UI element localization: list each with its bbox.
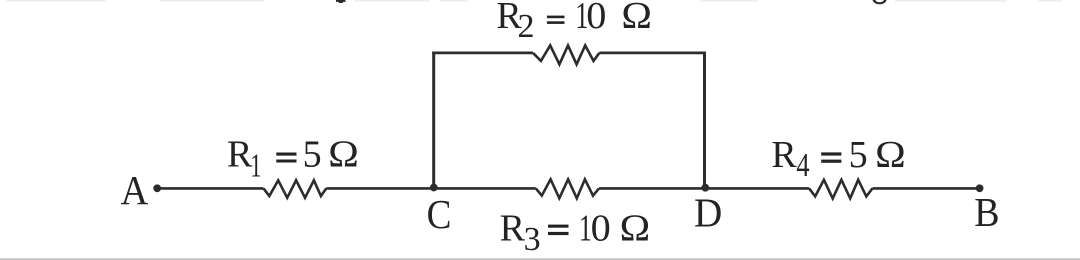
label R1 value [227,133,359,185]
svg-text:5: 5 [849,134,868,176]
resistor R3 [536,179,599,198]
wire: left vertical from C up [432,52,435,189]
wire R1 to node C [326,187,434,190]
svg-text:5: 5 [303,134,322,176]
svg-text:1: 1 [250,148,261,185]
wire R3 to node D [599,187,705,190]
cut-off text remnant: faint glyph bottoms [6,0,1062,2]
terminal dot A [153,184,161,192]
label R2 value [496,0,652,45]
svg-text:Ω: Ω [621,0,652,37]
cut-off text remnant: descender stem [336,0,346,3]
svg-text:0: 0 [591,208,611,250]
svg-text:R: R [771,134,797,176]
node C [430,184,438,192]
svg-text:4: 4 [796,147,809,184]
svg-text:R: R [500,208,526,250]
wire: top right horizontal [599,52,706,55]
svg-text:B: B [974,189,999,235]
wire node C to R3 [434,187,536,190]
svg-text:Ω: Ω [328,133,359,175]
svg-text:C: C [427,191,452,237]
wire: top left horizontal [432,52,533,55]
svg-text:Ω: Ω [620,207,651,249]
svg-text:3: 3 [524,221,541,258]
cut-off text remnant: loop bottom [873,0,887,4]
svg-text:Ω: Ω [875,133,906,175]
resistor R4 [809,180,872,199]
wire: right vertical down to D [703,52,706,189]
svg-text:0: 0 [586,0,606,37]
svg-text:D: D [694,190,722,236]
svg-text:R: R [227,134,253,176]
node D [701,184,709,192]
wire A to R1 [157,187,264,190]
bottom divider line [0,258,1080,260]
terminal dot B [976,184,984,192]
svg-text:2: 2 [518,8,535,45]
wire R4 to B [872,187,979,190]
label R3 value [500,207,651,258]
resistor R1 [264,180,327,198]
resistor R2 [533,45,599,64]
svg-text:A: A [121,167,149,213]
wire node D to R4 [705,187,809,190]
label R4 value [771,133,905,184]
